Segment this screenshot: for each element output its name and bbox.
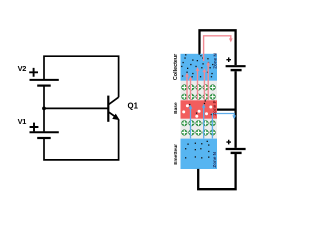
svg-text:Zone N: Zone N <box>212 151 217 167</box>
svg-text:V2: V2 <box>18 64 27 73</box>
svg-text:Collecteur: Collecteur <box>173 53 179 80</box>
svg-text:Zone P: Zone P <box>212 100 217 115</box>
svg-text:Base: Base <box>173 102 179 114</box>
svg-text:Zone N: Zone N <box>213 53 218 69</box>
svg-text:Q1: Q1 <box>128 102 139 111</box>
svg-text:V1: V1 <box>18 117 27 126</box>
svg-text:Emetteur: Emetteur <box>173 144 179 165</box>
